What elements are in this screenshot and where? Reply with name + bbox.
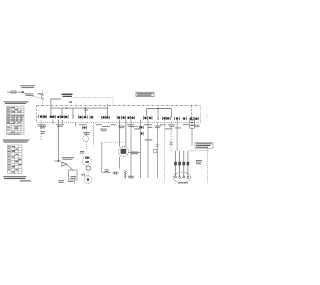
console dashed box right xyxy=(191,106,193,118)
vent box tail wire xyxy=(74,180,76,184)
wire dispenser drop xyxy=(93,122,95,145)
heater label xyxy=(128,176,134,178)
label below junction xyxy=(25,93,34,96)
bus drops right xyxy=(147,109,172,118)
timer chart table 1 xyxy=(6,106,24,134)
long vertical wires xyxy=(130,120,132,179)
right text block xyxy=(195,142,213,148)
label at left of connector xyxy=(38,93,43,94)
pump dark marks xyxy=(85,157,89,159)
table 1 dense rows xyxy=(7,115,24,122)
door switch wire xyxy=(40,120,42,140)
wire dotted to control xyxy=(73,97,113,105)
motor scribble on wire xyxy=(86,166,90,170)
vent assembly box xyxy=(69,170,78,180)
drain valve symbol xyxy=(62,162,67,166)
mid dotted wire xyxy=(102,141,124,143)
wire motor out xyxy=(129,151,141,153)
table 1 text speckle xyxy=(7,107,21,133)
float switch label xyxy=(83,132,90,135)
label right of float xyxy=(100,129,107,132)
valve label xyxy=(80,151,85,154)
bus wire left xyxy=(51,107,108,109)
motor winding wires xyxy=(176,151,188,177)
fuse F1 thermal cutoff xyxy=(11,91,16,93)
wire vertical mid drop xyxy=(106,104,108,116)
node drain junction xyxy=(57,160,59,162)
wire mid column dotted xyxy=(86,122,88,150)
table 1 caption xyxy=(7,133,20,136)
bottom-left notes xyxy=(3,176,31,181)
wire far right vertical xyxy=(207,148,209,184)
timer chart title xyxy=(4,101,29,104)
wire dotted right horizontal xyxy=(190,150,209,152)
connector label xyxy=(196,160,202,164)
drain valve label xyxy=(62,157,74,160)
bus drops left xyxy=(51,108,86,116)
door switch label xyxy=(40,126,46,134)
bottom tiny note xyxy=(58,180,64,182)
bus junction dots xyxy=(66,107,67,108)
table 2 text speckle xyxy=(8,146,22,173)
dispenser circle xyxy=(83,136,89,142)
relay contacts on wire 140.5 xyxy=(139,126,143,136)
motor label xyxy=(178,182,188,183)
wire to wash motor xyxy=(119,120,121,147)
interlock label blob xyxy=(62,94,73,98)
wire continues down xyxy=(87,170,89,183)
timer chart mid note xyxy=(3,140,30,143)
wire corner to interlock xyxy=(51,99,61,108)
float switch below row xyxy=(83,126,87,130)
contact marks on wires xyxy=(156,145,159,147)
wire stubs below console xyxy=(53,120,76,126)
heater tick pair xyxy=(113,171,119,174)
connector J1 bracket xyxy=(42,95,44,99)
wire x171 with contact xyxy=(170,122,172,151)
label power source xyxy=(20,85,35,88)
wire winding feed xyxy=(176,120,178,151)
fan motor circle xyxy=(84,176,92,184)
console dashed box bottom xyxy=(37,121,203,123)
bus wire right xyxy=(147,108,172,110)
connector blocks xyxy=(174,162,189,166)
bottom left small label xyxy=(105,169,110,172)
wire diagonal to connector xyxy=(34,97,40,99)
main motor dashed circle xyxy=(173,172,191,182)
console dashed box top xyxy=(37,105,201,107)
motor terminals xyxy=(175,176,189,178)
wash motor M1 xyxy=(119,147,129,157)
relay box right xyxy=(190,118,195,128)
label on bus xyxy=(69,101,72,103)
switch labels row xyxy=(38,124,200,128)
timer chart table 2 xyxy=(7,145,22,174)
wire dotted door feed xyxy=(42,90,44,106)
wire down from mid dotted xyxy=(102,142,111,172)
node power junction xyxy=(22,91,24,93)
vent bottom label xyxy=(68,180,74,183)
jog wire under console xyxy=(131,126,139,128)
label mid right xyxy=(165,127,173,130)
wire drain branch xyxy=(57,120,59,161)
wire L1 lead xyxy=(7,91,23,93)
wash motor label xyxy=(131,152,139,154)
label under console mid xyxy=(134,127,153,140)
heater element coil xyxy=(119,157,121,169)
console dashed box left xyxy=(36,106,38,123)
wash pump circle xyxy=(82,156,91,165)
wire diagonal to console xyxy=(23,93,34,97)
wire diagonal into vent box xyxy=(67,164,73,170)
switch row xyxy=(38,115,198,121)
arrow contact marks xyxy=(81,174,84,176)
label box TO JUNCTION xyxy=(136,92,154,96)
console outer right edge xyxy=(199,106,201,123)
